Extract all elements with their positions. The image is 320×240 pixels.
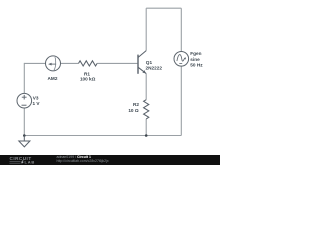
junction at V3/ground on bottom rail xyxy=(23,134,26,137)
svg-text:AM2: AM2 xyxy=(48,76,58,81)
ammeter AM2 xyxy=(46,56,61,71)
svg-text:50 Hz: 50 Hz xyxy=(190,62,203,67)
CircuitLab logo xyxy=(10,156,36,165)
wire: V3 bottom lead xyxy=(23,108,25,136)
wire: Fgen bottom lead down to rail xyxy=(180,66,182,135)
svg-text:R2: R2 xyxy=(133,102,139,107)
wire: ammeter to R1 xyxy=(61,62,79,64)
wire: R2 to bottom rail xyxy=(145,119,147,136)
svg-text:100 kΩ: 100 kΩ xyxy=(80,77,96,82)
wire: Fgen top lead xyxy=(180,8,182,51)
transistor Q1 xyxy=(138,51,146,74)
voltage source V3 xyxy=(17,93,32,108)
svg-text:sine: sine xyxy=(190,57,200,62)
watermark text xyxy=(57,155,109,163)
function generator Fgen xyxy=(174,52,189,67)
svg-text:1 V: 1 V xyxy=(33,101,41,106)
wire: R1 to Q1 base xyxy=(97,62,137,64)
wire: collector vertical up to top rail xyxy=(145,8,147,50)
svg-text:http://circuitlab.com/c28v27l6: http://circuitlab.com/c28v27l6jk2jx xyxy=(57,159,109,163)
resistor R1 xyxy=(79,61,98,66)
wire: emitter down to R2 xyxy=(145,74,147,100)
junction at R2/bottom rail xyxy=(145,134,148,137)
svg-text:Q1: Q1 xyxy=(146,60,153,65)
resistor R2 xyxy=(144,100,149,119)
wire: left vertical from corner down to V3 xyxy=(23,63,25,94)
svg-text:V3: V3 xyxy=(33,96,39,101)
svg-text:Fgen: Fgen xyxy=(190,51,201,56)
svg-text:10 Ω: 10 Ω xyxy=(128,108,139,113)
wire: bottom rail xyxy=(24,135,181,137)
watermark bar xyxy=(0,155,220,165)
ground xyxy=(19,136,30,147)
wire: left net from corner to ammeter xyxy=(24,62,45,64)
wire: top rail from collector branch to Fgen branch xyxy=(146,7,181,9)
svg-text:2N2222: 2N2222 xyxy=(146,66,163,71)
svg-text:LAB: LAB xyxy=(25,160,36,165)
